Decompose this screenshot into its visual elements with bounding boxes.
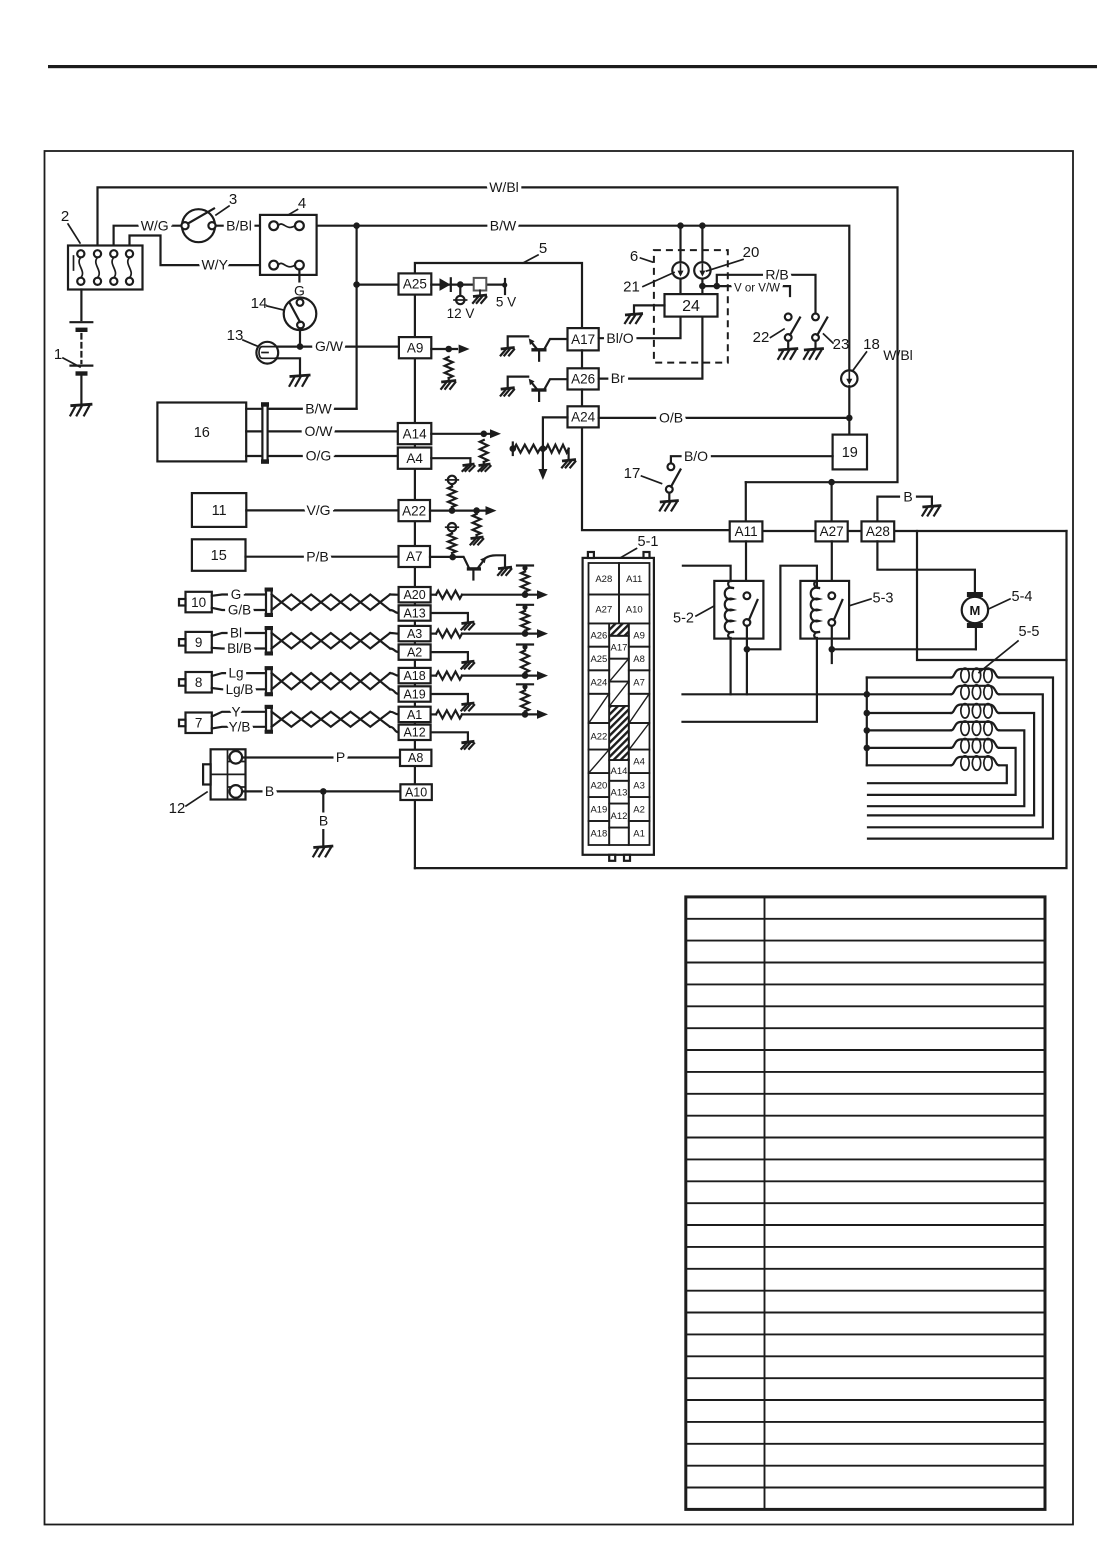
ground (23) bbox=[804, 349, 824, 359]
fuse cell A3 bbox=[629, 773, 650, 797]
ECU box 16 bbox=[157, 403, 246, 462]
wire P (12 to A8) bbox=[242, 756, 400, 758]
svg-text:A9: A9 bbox=[407, 340, 424, 355]
fuse cell blank bbox=[609, 706, 629, 760]
svg-text:A20: A20 bbox=[403, 588, 425, 602]
resistor R-A7 bbox=[451, 531, 453, 533]
wire sensor line out bbox=[431, 632, 436, 634]
fuse cell A26 bbox=[589, 623, 610, 646]
ground (24) bbox=[625, 314, 643, 324]
svg-text:A13: A13 bbox=[611, 788, 628, 799]
wire Y bbox=[212, 712, 266, 717]
connector A24 bbox=[568, 406, 599, 427]
fuse cell A8 bbox=[629, 647, 650, 671]
svg-text:4: 4 bbox=[298, 195, 306, 212]
svg-text:W/Bl: W/Bl bbox=[489, 179, 519, 195]
table (legend, empty) bbox=[686, 897, 1045, 1510]
connector A19 bbox=[399, 686, 431, 701]
wire Bl/B bbox=[212, 647, 266, 650]
svg-text:A1: A1 bbox=[633, 828, 645, 839]
ground (return) bbox=[461, 703, 474, 711]
svg-text:A3: A3 bbox=[633, 780, 645, 791]
node O/B junction bbox=[846, 415, 853, 422]
resistor (series) bbox=[436, 591, 462, 599]
wire A7 out bbox=[430, 556, 453, 558]
node bulb21 tap bbox=[677, 222, 684, 229]
wire B/Bl bbox=[217, 225, 261, 227]
fuse cell A18 bbox=[589, 821, 610, 845]
diode D1 bbox=[440, 278, 451, 291]
lamp 13 (E) bbox=[256, 342, 278, 364]
wire sensor line out bbox=[431, 594, 436, 596]
connector A3 bbox=[399, 626, 431, 641]
fuse cell A7 bbox=[629, 670, 650, 694]
wire box5 top edge bbox=[415, 263, 582, 328]
wire L3 return wrap bbox=[868, 713, 1034, 815]
terminal 5V tick bbox=[504, 279, 506, 294]
fuse cell A14 bbox=[609, 760, 629, 781]
wire switch14 to G/W node bbox=[299, 328, 301, 346]
svg-text:19: 19 bbox=[842, 445, 858, 461]
ground (divider) bbox=[567, 449, 569, 460]
wire P/B (15 to A7) bbox=[246, 556, 399, 558]
ground (battery) bbox=[70, 404, 92, 415]
wire Lg/B bbox=[212, 688, 266, 689]
connector A18 bbox=[399, 668, 431, 683]
svg-text:O/B: O/B bbox=[659, 410, 683, 426]
wire L6 return wrap bbox=[868, 765, 1007, 783]
svg-text:5-3: 5-3 bbox=[873, 591, 894, 607]
wire A27 drop bbox=[830, 482, 832, 521]
svg-text:7: 7 bbox=[195, 716, 203, 731]
svg-text:A20: A20 bbox=[590, 780, 607, 791]
svg-text:15: 15 bbox=[211, 548, 227, 564]
pullup circle (A22) bbox=[446, 476, 459, 484]
fuse cell A1 bbox=[629, 821, 650, 845]
resistor R-A9 bbox=[445, 357, 453, 378]
regulator block (gray square) bbox=[474, 278, 487, 291]
transistor Q2 (to A26) bbox=[508, 377, 568, 401]
connector 8 bbox=[179, 672, 212, 693]
svg-text:G: G bbox=[231, 587, 242, 602]
svg-text:A12: A12 bbox=[403, 726, 425, 740]
svg-text:A18: A18 bbox=[403, 669, 425, 683]
node G/W junction bbox=[297, 343, 304, 350]
fuse cell A17 bbox=[609, 636, 629, 659]
svg-text:A8: A8 bbox=[408, 751, 423, 765]
fuse cell A20 bbox=[589, 773, 610, 797]
svg-text:A11: A11 bbox=[735, 524, 758, 539]
ground (A9) bbox=[441, 381, 456, 389]
svg-text:10: 10 bbox=[191, 595, 206, 610]
svg-text:17: 17 bbox=[624, 465, 641, 482]
switch 17 bbox=[666, 463, 681, 500]
unit box 24 bbox=[665, 294, 718, 317]
resistor (series) bbox=[436, 710, 462, 718]
wire 5-3 switch to motor bbox=[831, 626, 833, 663]
svg-text:A7: A7 bbox=[633, 677, 645, 688]
ground (A14) bbox=[479, 464, 491, 471]
wire motor top feed bbox=[877, 541, 975, 592]
wire Bl/O bbox=[599, 317, 681, 339]
resistor R-right bbox=[546, 445, 569, 453]
wire O/B (A24 to 19) bbox=[599, 417, 850, 419]
svg-text:18: 18 bbox=[863, 336, 880, 353]
fuse cell blank bbox=[609, 828, 629, 845]
svg-text:8: 8 bbox=[195, 675, 203, 690]
twisted pair wires 8 bbox=[272, 673, 390, 689]
connector A1 bbox=[399, 707, 431, 722]
ground (lamp 13) bbox=[290, 375, 311, 386]
wire W/G bbox=[114, 226, 185, 254]
coil L3 bbox=[867, 712, 951, 714]
svg-text:3: 3 bbox=[229, 191, 237, 208]
svg-text:A28: A28 bbox=[595, 574, 612, 585]
wire 5-2 coil return bbox=[729, 639, 731, 695]
fuse cell A28 bbox=[589, 563, 620, 595]
svg-text:B: B bbox=[903, 489, 912, 505]
wire B (A28 top) bbox=[877, 497, 899, 522]
connector A14 bbox=[398, 423, 432, 444]
wire B/W vertical bus bbox=[267, 226, 357, 409]
wire L4 return wrap bbox=[868, 730, 1024, 806]
svg-text:A4: A4 bbox=[406, 451, 423, 466]
fuse cell A24 bbox=[589, 670, 610, 694]
svg-text:W/Y: W/Y bbox=[201, 257, 228, 273]
pullup rail bbox=[517, 683, 533, 685]
svg-text:A12: A12 bbox=[611, 811, 628, 822]
fuse cell blank bbox=[629, 694, 650, 723]
wire A22 out bbox=[430, 510, 485, 512]
svg-text:14: 14 bbox=[251, 295, 268, 312]
wire G/B bbox=[212, 608, 266, 610]
ground (A4) bbox=[463, 464, 475, 471]
relay 5-2 bbox=[714, 581, 763, 639]
node bulb20 tap bbox=[699, 222, 706, 229]
resistor (pullup) bbox=[524, 607, 526, 611]
connector A27 bbox=[816, 521, 848, 541]
connector A26 bbox=[568, 368, 599, 389]
wire O/G (16 to A4) bbox=[246, 455, 262, 457]
svg-text:W/Bl: W/Bl bbox=[883, 347, 913, 363]
wire 5-3 coil return bbox=[683, 639, 817, 722]
svg-text:B/W: B/W bbox=[305, 400, 332, 416]
svg-text:A19: A19 bbox=[403, 687, 425, 701]
svg-text:5-2: 5-2 bbox=[673, 611, 694, 627]
wire B (12 to A10) bbox=[242, 790, 400, 792]
svg-text:12: 12 bbox=[169, 800, 186, 817]
wire A14 out bbox=[431, 433, 490, 435]
svg-text:A25: A25 bbox=[590, 654, 607, 665]
fuse cell A12 bbox=[609, 804, 629, 828]
svg-text:A3: A3 bbox=[407, 627, 422, 641]
svg-text:A13: A13 bbox=[403, 606, 425, 620]
svg-text:5 V: 5 V bbox=[496, 295, 516, 310]
wire A-column bus bbox=[414, 295, 416, 869]
wire B/O bbox=[671, 456, 833, 463]
node 12V junction bbox=[457, 281, 464, 288]
svg-text:A4: A4 bbox=[633, 757, 645, 768]
wire B to ground bbox=[322, 791, 324, 846]
wire coil-block left bus bbox=[866, 678, 868, 766]
fuse cell blank bbox=[609, 682, 629, 706]
svg-text:A8: A8 bbox=[633, 654, 645, 665]
connector A22 bbox=[399, 500, 431, 521]
svg-text:A14: A14 bbox=[403, 426, 428, 441]
svg-text:B: B bbox=[265, 783, 274, 799]
wire A24 left branch bbox=[543, 417, 568, 471]
wire W/Bl drop to A11 bbox=[745, 482, 747, 521]
pullup rail bbox=[517, 564, 533, 566]
svg-text:P: P bbox=[336, 749, 345, 765]
wire A25 out bbox=[431, 284, 505, 286]
top rule bbox=[48, 65, 1097, 68]
connector A17 bbox=[568, 328, 599, 350]
wire bottom return run bbox=[415, 531, 1067, 868]
svg-text:M: M bbox=[969, 603, 980, 618]
node V junction bbox=[699, 283, 706, 290]
ground (return) bbox=[461, 661, 474, 669]
junction bar (pair 9) bbox=[265, 626, 273, 656]
connector A8 bbox=[400, 750, 431, 766]
svg-text:Lg/B: Lg/B bbox=[226, 682, 254, 697]
svg-text:A26: A26 bbox=[590, 630, 607, 641]
wire R/B bbox=[717, 275, 816, 314]
svg-text:W/G: W/G bbox=[141, 217, 169, 233]
svg-text:A7: A7 bbox=[406, 549, 423, 564]
ground (B) bbox=[313, 846, 333, 856]
svg-text:A10: A10 bbox=[405, 786, 427, 800]
svg-text:A22: A22 bbox=[402, 503, 426, 518]
fuse cell A11 bbox=[619, 563, 650, 595]
wire A11 to relay 5-2 switch bbox=[745, 541, 747, 592]
svg-text:Bl: Bl bbox=[230, 626, 242, 641]
fuse cell blank bbox=[589, 694, 610, 723]
svg-text:6: 6 bbox=[630, 248, 638, 265]
svg-text:B: B bbox=[319, 813, 328, 829]
svg-text:P/B: P/B bbox=[306, 548, 329, 564]
wire 5-2 switch output bbox=[746, 626, 748, 694]
connector 9 bbox=[179, 632, 212, 653]
pullup rail bbox=[517, 604, 533, 606]
resistor R-A22b bbox=[473, 514, 481, 535]
fuse cell A2 bbox=[629, 797, 650, 821]
fuse cell A25 bbox=[589, 647, 610, 671]
svg-text:5-1: 5-1 bbox=[638, 534, 659, 550]
wire G/W to A9 bbox=[300, 346, 399, 348]
wire A4 out bbox=[431, 458, 470, 464]
wire L5 return wrap bbox=[868, 748, 1016, 795]
svg-text:A22: A22 bbox=[590, 732, 607, 743]
wire sensor line out bbox=[431, 674, 436, 676]
coil L6 bbox=[867, 764, 951, 766]
connector bar (16) bbox=[261, 402, 269, 464]
fuse cell A10 bbox=[619, 595, 650, 624]
fuse cell blank bbox=[589, 750, 610, 774]
wire O/W (16 to A14) bbox=[246, 430, 262, 432]
switch 3 bbox=[181, 209, 215, 243]
svg-text:G/B: G/B bbox=[228, 603, 251, 618]
ground (17) bbox=[660, 501, 679, 511]
fuse cell A27 bbox=[589, 595, 620, 624]
wire A27 to relay 5-3 switch bbox=[831, 541, 833, 592]
svg-text:12 V: 12 V bbox=[447, 306, 475, 321]
connector A12 bbox=[399, 725, 431, 740]
svg-text:A28: A28 bbox=[866, 524, 890, 539]
wire L1 return wrap bbox=[868, 678, 1053, 839]
node R/B tap bbox=[714, 283, 721, 290]
svg-text:A24: A24 bbox=[571, 410, 596, 425]
terminal tick bbox=[512, 443, 514, 456]
wire Y/B bbox=[212, 727, 266, 729]
svg-text:A14: A14 bbox=[611, 766, 628, 777]
arrow A9 bbox=[459, 345, 470, 354]
ground (Q3) bbox=[498, 567, 512, 575]
wire row2 feed from relays bbox=[683, 693, 867, 695]
resistor (pullup) bbox=[524, 647, 526, 651]
resistor (pullup) bbox=[524, 568, 526, 572]
connector A10 bbox=[400, 784, 431, 800]
svg-text:A27: A27 bbox=[820, 524, 844, 539]
wire sensor return bbox=[431, 613, 468, 622]
svg-text:B/W: B/W bbox=[490, 217, 517, 233]
switch 23 bbox=[812, 314, 827, 349]
svg-text:O/G: O/G bbox=[306, 448, 332, 464]
svg-text:23: 23 bbox=[833, 336, 850, 353]
svg-text:A27: A27 bbox=[595, 604, 612, 615]
switch 22 bbox=[785, 314, 800, 349]
bulb 21 bbox=[672, 262, 688, 278]
wire Bl bbox=[212, 633, 266, 636]
svg-text:A11: A11 bbox=[626, 574, 642, 585]
coil L1 bbox=[867, 676, 951, 678]
svg-text:R/B: R/B bbox=[765, 266, 788, 282]
connector 10 bbox=[179, 592, 212, 613]
wire to bulb 20 bbox=[701, 226, 703, 294]
box 11 bbox=[192, 493, 246, 527]
svg-text:A2: A2 bbox=[633, 804, 645, 815]
wire G bbox=[212, 595, 266, 596]
wire L2 return wrap bbox=[868, 694, 1043, 827]
svg-text:A10: A10 bbox=[626, 604, 643, 615]
svg-text:5: 5 bbox=[539, 240, 547, 257]
fuse cell blank bbox=[609, 659, 629, 682]
pullup rail bbox=[517, 643, 533, 645]
ground (Q1) bbox=[501, 348, 515, 356]
wire W/Bl top run bbox=[98, 187, 898, 482]
svg-text:B/Bl: B/Bl bbox=[226, 217, 252, 233]
connector 12 bbox=[203, 749, 245, 799]
svg-text:A1: A1 bbox=[407, 708, 422, 722]
svg-text:2: 2 bbox=[61, 208, 69, 225]
resistor (pullup) bbox=[524, 687, 526, 691]
svg-text:A19: A19 bbox=[590, 804, 607, 815]
svg-text:5-5: 5-5 bbox=[1019, 624, 1040, 640]
wire Br bbox=[599, 317, 703, 379]
svg-text:5-4: 5-4 bbox=[1012, 589, 1033, 605]
relay 5-3 bbox=[800, 581, 849, 639]
ground (return) bbox=[461, 741, 474, 749]
battery 1 bbox=[71, 290, 93, 405]
svg-text:A9: A9 bbox=[633, 630, 645, 641]
connector A9 bbox=[399, 337, 431, 358]
connector A28 bbox=[862, 521, 895, 541]
switch 14 bbox=[284, 298, 317, 331]
junction bar (pair 10) bbox=[265, 588, 273, 618]
wire bulb18 to O/B bbox=[848, 386, 850, 434]
svg-text:A17: A17 bbox=[611, 643, 628, 654]
svg-text:9: 9 bbox=[195, 635, 203, 650]
resistor R-A22a bbox=[451, 484, 453, 486]
connector A7 bbox=[399, 546, 431, 567]
wire to bulb 21 bbox=[679, 226, 681, 294]
twisted pair wires 7 bbox=[272, 712, 390, 727]
arrow down bbox=[538, 469, 547, 480]
svg-text:22: 22 bbox=[753, 329, 770, 346]
coil L5 bbox=[867, 747, 951, 749]
ground (return) bbox=[461, 622, 474, 630]
wire V/G (11 to A22) bbox=[246, 509, 398, 511]
wire relay 5-2 coil feed bbox=[683, 566, 731, 586]
node A27 tap bbox=[828, 479, 835, 486]
wire A11-A27-A28 row bbox=[762, 530, 1066, 532]
fuse cell A9 bbox=[629, 623, 650, 646]
connector block 2 bbox=[68, 246, 143, 290]
svg-text:20: 20 bbox=[743, 244, 760, 261]
node A9 junction bbox=[445, 346, 452, 353]
svg-text:Bl/O: Bl/O bbox=[606, 330, 633, 346]
wire 24 to ground bbox=[634, 305, 665, 313]
svg-text:Br: Br bbox=[611, 370, 625, 386]
svg-text:A24: A24 bbox=[590, 677, 607, 688]
svg-text:B/O: B/O bbox=[684, 448, 708, 464]
wire lamp leads bbox=[278, 346, 301, 348]
svg-text:Y/B: Y/B bbox=[229, 720, 251, 735]
wire B/W top run bbox=[317, 226, 850, 372]
svg-text:G/W: G/W bbox=[315, 338, 344, 354]
ground (regulator) bbox=[479, 290, 481, 295]
wire B/W (16) bbox=[246, 408, 262, 410]
svg-text:11: 11 bbox=[212, 503, 227, 519]
motor 5-4 bbox=[962, 592, 988, 628]
fuse cell A22 bbox=[589, 723, 610, 750]
svg-text:O/W: O/W bbox=[305, 423, 334, 439]
svg-text:A18: A18 bbox=[590, 828, 607, 839]
resistor R-A14 bbox=[480, 440, 488, 462]
connector 7 bbox=[179, 713, 212, 734]
svg-text:A25: A25 bbox=[403, 277, 427, 292]
svg-text:Y: Y bbox=[231, 704, 240, 719]
dashed box 6 bbox=[654, 250, 728, 363]
connector A25 bbox=[399, 273, 432, 294]
svg-text:24: 24 bbox=[682, 298, 700, 315]
wire V or V/W bbox=[702, 286, 790, 296]
wire W/Y bbox=[130, 236, 261, 266]
12V source symbol bbox=[454, 285, 467, 305]
motor enclosure bbox=[917, 531, 1067, 660]
fuse cell A4 bbox=[629, 750, 650, 774]
fuse cell A19 bbox=[589, 797, 610, 821]
wire sensor return bbox=[431, 694, 468, 703]
svg-text:21: 21 bbox=[623, 279, 640, 296]
wire A17-A26-A24 link bbox=[582, 350, 730, 530]
bulb 20 bbox=[694, 262, 710, 278]
svg-text:Lg: Lg bbox=[228, 666, 243, 681]
svg-text:Bl/B: Bl/B bbox=[227, 641, 252, 656]
svg-text:A17: A17 bbox=[571, 332, 595, 347]
fuse box 5-1 outline bbox=[583, 552, 654, 861]
ground (22) bbox=[778, 349, 798, 359]
